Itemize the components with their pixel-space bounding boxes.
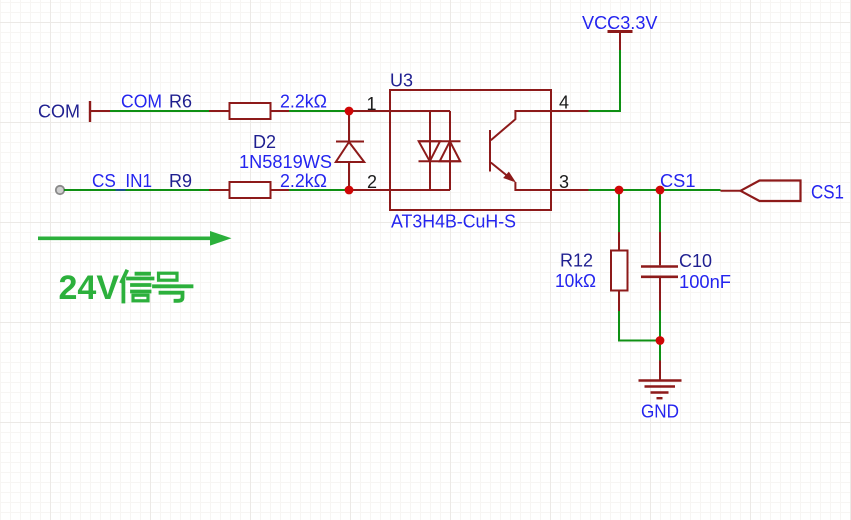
svg-text:3: 3 xyxy=(559,172,569,192)
wire R9 to node (bottom row) xyxy=(289,189,349,191)
wire COM net (top row, port to R6) xyxy=(110,110,209,112)
svg-text:4: 4 xyxy=(559,93,569,113)
svg-text:100nF: 100nF xyxy=(679,272,731,292)
port CS1 (right output port) xyxy=(721,181,845,204)
unconnected pin dot (CS_IN1 left end) xyxy=(56,186,64,194)
resistor R12 10k xyxy=(555,232,628,311)
phototransistor xyxy=(491,111,551,140)
wire stub pin1 U3 xyxy=(349,110,390,112)
svg-text:VCC3.3V: VCC3.3V xyxy=(582,13,658,33)
svg-text:CS_IN1: CS_IN1 xyxy=(92,171,152,192)
svg-text:R9: R9 xyxy=(169,171,192,191)
wire node to R12 xyxy=(618,190,620,232)
svg-text:10kΩ: 10kΩ xyxy=(555,271,596,291)
wire stub pin2 U3 xyxy=(349,189,390,191)
svg-text:U3: U3 xyxy=(390,71,413,91)
capacitor C10 100nF xyxy=(641,232,731,311)
svg-text:C10: C10 xyxy=(679,251,712,271)
wire stub pin3 U3 xyxy=(551,189,589,191)
junction node bottom (R9/D2/pin2) xyxy=(345,186,354,195)
wire C10 to ground node xyxy=(659,311,661,361)
junction node C10 branch xyxy=(656,186,665,195)
junction node R12 branch xyxy=(615,186,624,195)
svg-text:CS1: CS1 xyxy=(660,171,696,191)
svg-text:1N5819WS: 1N5819WS xyxy=(239,152,332,172)
wire stub pin4 U3 xyxy=(551,110,589,112)
resistor R6 xyxy=(169,92,327,120)
input rails xyxy=(390,110,450,112)
anti-parallel LED pair xyxy=(419,140,461,142)
wire R12 to ground node xyxy=(619,311,660,341)
svg-text:2: 2 xyxy=(367,172,377,192)
wire CS1 net (bottom row right) xyxy=(589,189,721,191)
svg-text:AT3H4B-CuH-S: AT3H4B-CuH-S xyxy=(391,212,516,232)
ground GND xyxy=(639,361,682,422)
wire pin4 to VCC xyxy=(589,50,621,111)
svg-text:COM: COM xyxy=(121,92,162,112)
op-amp U3 optocoupler AT3H4B-CuH-S xyxy=(390,71,551,232)
wire R6 to node (top row) xyxy=(289,110,349,112)
svg-text:COM: COM xyxy=(38,102,80,122)
svg-text:D2: D2 xyxy=(253,132,276,152)
svg-text:2.2kΩ: 2.2kΩ xyxy=(280,171,327,191)
glyph 号 xyxy=(154,273,192,301)
svg-text:R6: R6 xyxy=(169,92,192,112)
power flag VCC3.3V xyxy=(582,13,658,50)
wire CS_IN1 (bottom row, to R9) xyxy=(64,189,209,191)
svg-text:1: 1 xyxy=(367,94,377,114)
junction node ground xyxy=(656,336,665,345)
wire node to C10 xyxy=(659,190,661,232)
svg-text:2.2kΩ: 2.2kΩ xyxy=(280,92,327,112)
annotation text 24V信号 xyxy=(59,269,192,307)
port COM (left input port) xyxy=(38,101,110,122)
glyph 信 xyxy=(122,272,153,302)
svg-text:24V: 24V xyxy=(59,269,120,307)
diode D2 1N5819WS xyxy=(239,111,364,190)
svg-text:CS1: CS1 xyxy=(811,182,844,203)
svg-text:GND: GND xyxy=(641,402,679,422)
resistor R9 xyxy=(169,171,327,198)
junction node top (R6/D2/pin1) xyxy=(345,107,354,116)
svg-text:R12: R12 xyxy=(560,251,593,271)
annotation arrow 24V signal direction xyxy=(38,231,232,246)
